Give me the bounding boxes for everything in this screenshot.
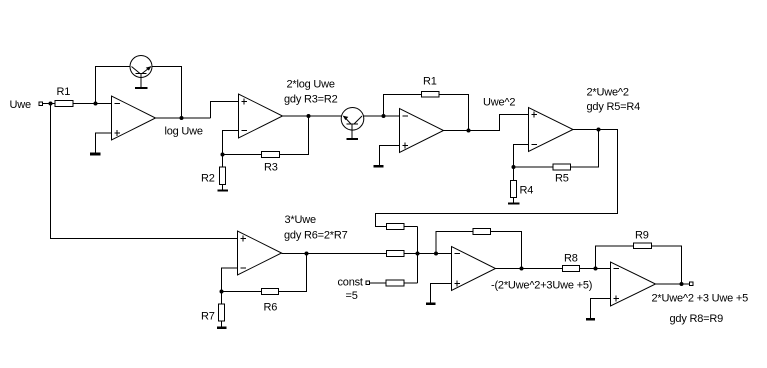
svg-text:gdy R6=2*R7: gdy R6=2*R7 (284, 230, 348, 242)
ground Q1 base (135, 87, 148, 89)
node junction U2 output (307, 114, 311, 118)
svg-text:R6: R6 (264, 302, 278, 314)
svg-text:Uwe: Uwe (10, 99, 31, 111)
wire U2 output to Q2 (283, 115, 342, 117)
wire input bus vertical (417, 227, 419, 284)
op-amp U4 gain 2 (529, 108, 574, 152)
wire U5 output to summing resistor (282, 253, 387, 255)
ground U3 non-inverting (374, 165, 384, 168)
wire R7 to ground (221, 321, 223, 327)
wire U4 inverting input (514, 145, 529, 181)
wire const to summing resistor (370, 282, 387, 284)
svg-text:R1: R1 (57, 86, 71, 98)
node junction U3 output (467, 129, 471, 133)
resistor R9 (634, 230, 652, 249)
node junction feedback tap U6 (434, 252, 438, 256)
svg-text:2*log Uwe: 2*log Uwe (287, 79, 335, 91)
wire junction to R3 (223, 154, 262, 156)
node junction U4 output (597, 128, 601, 132)
ground Q2 base (346, 138, 358, 140)
resistor R8 (563, 253, 580, 272)
wire U3 output (444, 115, 529, 131)
wire R2 to ground (222, 185, 224, 190)
transistor Q1 log feedback (130, 56, 152, 78)
ground R4 (508, 202, 520, 204)
wire U2 inverting input (223, 131, 239, 168)
resistor R6 (262, 289, 279, 314)
wire U5 inverting input (222, 268, 238, 304)
wire Q1 base to ground (140, 74, 142, 88)
wire R9 to U7 output (652, 246, 682, 284)
wire U6 feedback to output (491, 232, 522, 269)
wire U1 output (156, 117, 211, 119)
wire Q2 base to ground (351, 124, 353, 138)
op-amp U6 summing inverter (452, 247, 496, 291)
wire summing bottom to bus (404, 282, 418, 284)
transistor Q2 antilog (341, 108, 364, 131)
resistor summing top (387, 224, 405, 230)
svg-text:R7: R7 (201, 311, 215, 323)
terminal const input (366, 281, 370, 285)
resistor summing middle (387, 251, 405, 257)
resistor R5 (553, 164, 571, 185)
node junction U5 output (305, 252, 309, 256)
svg-text:2*Uwe^2 +3 Uwe +5: 2*Uwe^2 +3 Uwe +5 (652, 292, 749, 304)
svg-text:-(2*Uwe^2+3Uwe +5): -(2*Uwe^2+3Uwe +5) (491, 280, 592, 292)
resistor R3 (262, 152, 280, 174)
wire R6 to U5 output (279, 254, 307, 292)
op-amp U5 gain 3 (238, 231, 282, 275)
svg-text:log Uwe: log Uwe (165, 126, 203, 138)
node junction R6 R7 (220, 290, 224, 294)
op-amp U2 gain 2 (239, 94, 283, 138)
svg-text:gdy R5=R4: gdy R5=R4 (587, 101, 641, 113)
svg-text:R5: R5 (555, 173, 569, 185)
resistor summing bottom (386, 280, 404, 286)
node junction U1 output (180, 116, 184, 120)
svg-text:R8: R8 (564, 253, 578, 265)
wire U4 output to summing resistor (376, 130, 618, 227)
wire feedback up from input (96, 67, 131, 104)
svg-text:R1: R1 (423, 76, 437, 88)
wire U6 output to R8 (496, 268, 563, 270)
wire R8 to U7 inverting input (580, 268, 611, 270)
ground U6 non-inverting (426, 303, 435, 305)
node junction R4 R5 (512, 165, 516, 169)
wire U6 non-inverting input to ground (431, 284, 452, 303)
op-amp U1 log amplifier (112, 96, 156, 140)
wire terminal to R1 (43, 103, 56, 105)
wire R5 to U4 output (571, 130, 599, 168)
node junction U7 input feedback tap (594, 267, 598, 271)
terminal Uwe input (39, 102, 43, 106)
op-amp U3 antilog amplifier (400, 109, 444, 153)
wire U1 output to U2 non-inverting input (211, 102, 239, 119)
resistor U6 feedback (473, 229, 491, 235)
svg-text:gdy R3=R2: gdy R3=R2 (284, 94, 338, 106)
wire summing middle to U6 (404, 253, 452, 255)
wire feedback up to R1b (384, 95, 422, 117)
wire R3 to U2 output (280, 116, 309, 155)
wire junction to R6 (222, 291, 262, 293)
wire U3 non-inverting input to ground (380, 146, 400, 166)
node junction U3 input feedback tap (382, 114, 386, 118)
resistor R2 (201, 167, 226, 185)
resistor R1 (55, 86, 73, 107)
wire Uwe branch to U5 (51, 104, 238, 239)
terminal output (690, 282, 694, 286)
resistor R4 (511, 181, 534, 198)
svg-text:gdy R8=R9: gdy R8=R9 (670, 313, 724, 325)
wire R4 to ground (513, 198, 515, 203)
svg-text:R2: R2 (201, 173, 215, 185)
resistor R1 feedback U3 (422, 76, 440, 98)
svg-text:R9: R9 (635, 230, 649, 242)
node junction R2 R3 (221, 153, 225, 157)
ground U1 non-inverting (90, 153, 101, 156)
wire U7 output to terminal (656, 283, 690, 285)
op-amp U7 output inverter (611, 262, 656, 306)
wire Q2 to U3 inverting input (363, 115, 399, 117)
node junction feedback tap (94, 102, 98, 106)
svg-text:3*Uwe: 3*Uwe (285, 214, 316, 226)
svg-text:2*Uwe^2: 2*Uwe^2 (587, 87, 629, 99)
svg-text:=5: =5 (346, 290, 358, 302)
wire summing top to bus (404, 226, 418, 228)
svg-text:Uwe^2: Uwe^2 (483, 97, 515, 109)
wire U7 feedback (596, 246, 634, 269)
wire Q1 collector to U1 output (152, 67, 182, 119)
node junction U7 output (680, 282, 684, 286)
resistor R7 (201, 304, 225, 323)
wire junction to R5 (514, 166, 554, 168)
svg-text:const: const (338, 277, 363, 289)
node junction input (49, 102, 53, 106)
ground R2 (217, 189, 228, 191)
wire U6 feedback (436, 232, 473, 254)
node junction bus middle (416, 252, 420, 256)
wire R1 to U1 inverting input (73, 103, 112, 105)
wire R1b to U3 output (439, 95, 469, 131)
svg-text:R4: R4 (520, 185, 534, 197)
wire U1 non-inverting input to ground (96, 133, 112, 153)
ground R7 (217, 327, 227, 329)
node junction U6 output (520, 267, 524, 271)
ground U7 non-inverting (586, 318, 595, 320)
svg-text:R3: R3 (264, 162, 278, 174)
wire U7 non-inverting input to ground (591, 299, 611, 319)
